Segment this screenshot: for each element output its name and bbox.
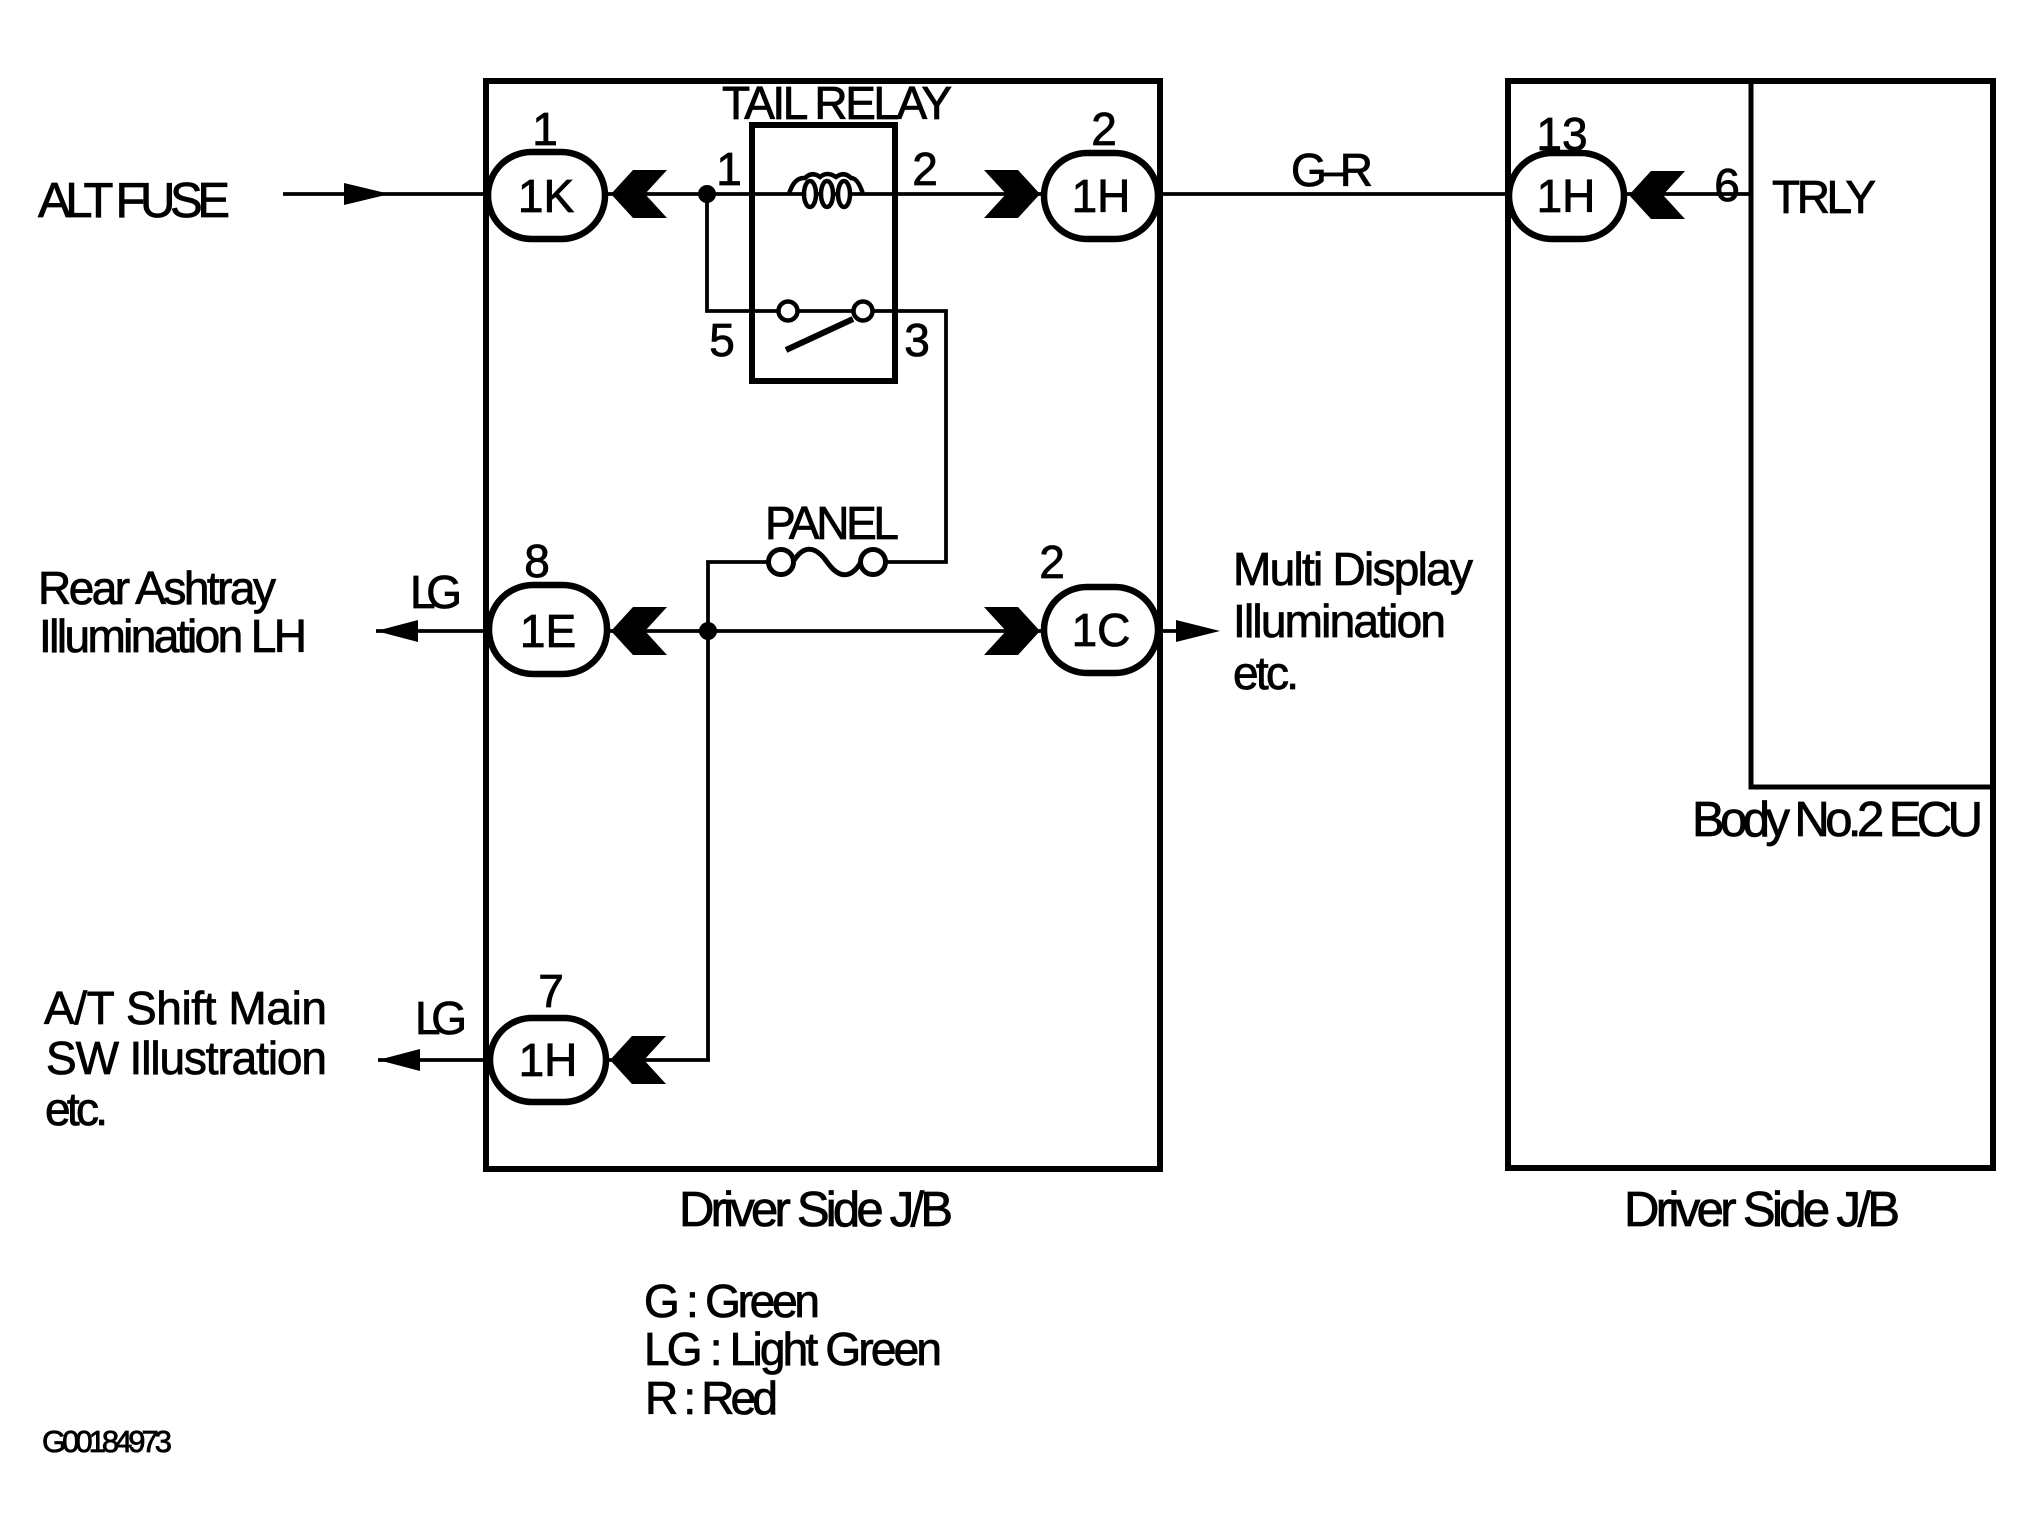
svg-text:etc.: etc. <box>45 1083 108 1135</box>
svg-text:etc.: etc. <box>1233 647 1299 699</box>
svg-text:G00184973: G00184973 <box>42 1424 172 1459</box>
svg-text:2: 2 <box>912 143 938 195</box>
svg-text:PANEL: PANEL <box>765 497 899 549</box>
svg-text:Rear Ashtray: Rear Ashtray <box>38 562 276 614</box>
chevron connector arrow at 1H pin13 (points left) <box>1629 171 1685 219</box>
box: Body No.2 ECU internal partition <box>1751 81 1993 787</box>
chevron connector arrow at 1C (points right) <box>984 607 1040 655</box>
svg-text:1E: 1E <box>520 605 576 657</box>
svg-text:Illumination LH: Illumination LH <box>39 610 307 662</box>
wire: relay pin 3 over to right and down to PANEL fuse <box>788 311 946 562</box>
svg-text:Driver Side J/B: Driver Side J/B <box>679 1183 953 1237</box>
svg-text:LG : Light Green: LG : Light Green <box>644 1323 942 1375</box>
svg-text:1H: 1H <box>1537 170 1596 222</box>
chevron connector arrow at 1H pin7 (points left) <box>610 1036 666 1084</box>
wire: ALT FUSE feed to relay coil row (main top wire) <box>283 192 1751 196</box>
svg-text:G–R: G–R <box>1291 144 1373 196</box>
relay switch contacts <box>779 302 798 321</box>
svg-text:3: 3 <box>904 314 930 366</box>
connector 1H (pin 2) <box>1044 153 1158 239</box>
arrowhead: to A/T Shift (points left) <box>378 1049 420 1071</box>
junction node B (middle) <box>699 622 717 640</box>
svg-text:7: 7 <box>538 965 564 1017</box>
svg-text:8: 8 <box>524 535 550 587</box>
relay switch blade <box>786 319 853 350</box>
arrowhead: ALT FUSE feed (points right) <box>344 183 390 205</box>
svg-text:1K: 1K <box>518 170 575 222</box>
connector 1H (pin 13) <box>1509 153 1624 239</box>
svg-text:Illumination: Illumination <box>1233 595 1446 647</box>
svg-text:SW Illustration: SW Illustration <box>46 1032 327 1084</box>
svg-text:2: 2 <box>1091 103 1117 155</box>
relay coil <box>789 174 863 194</box>
svg-text:1: 1 <box>532 103 558 155</box>
connector 1K (pin 1) <box>488 152 605 239</box>
chevron connector arrow at 1K (points left) <box>611 170 667 218</box>
svg-text:6: 6 <box>1714 159 1740 211</box>
chevron connector arrow at 1E (points left) <box>611 607 667 655</box>
svg-text:5: 5 <box>709 314 735 366</box>
svg-text:Body No.2 ECU: Body No.2 ECU <box>1692 793 1983 847</box>
svg-text:G : Green: G : Green <box>644 1275 820 1327</box>
wire: branch from node A down to relay switch pin 5 <box>707 194 779 311</box>
chevron connector arrow at 1H pin2 (points right) <box>984 170 1040 218</box>
relay TAIL RELAY box <box>752 125 895 381</box>
connector 1C (pin 2) <box>1044 587 1158 673</box>
junction node A (top) <box>698 185 716 203</box>
wire: PANEL fuse left lead and long vertical riser down to row 3 <box>708 562 768 1060</box>
svg-text:LG: LG <box>410 566 462 618</box>
svg-text:LG: LG <box>415 992 467 1044</box>
svg-text:Multi Display: Multi Display <box>1233 543 1473 595</box>
svg-text:1H: 1H <box>1072 170 1131 222</box>
box: Driver Side J/B (right) <box>1508 81 1993 1168</box>
svg-text:ALT FUSE: ALT FUSE <box>38 174 230 228</box>
connector 1E (pin 8) <box>489 585 607 674</box>
wire: 1E to 1C row (middle wire) <box>376 629 1180 633</box>
svg-text:1C: 1C <box>1072 604 1131 656</box>
arrowhead: to Rear Ashtray (points left) <box>376 620 418 642</box>
svg-text:1: 1 <box>716 143 742 195</box>
svg-text:1H: 1H <box>519 1034 578 1086</box>
wire: A/T shift row from arrow to vertical riser <box>378 1058 710 1062</box>
svg-text:TRLY: TRLY <box>1772 171 1876 223</box>
svg-text:TAIL RELAY: TAIL RELAY <box>722 77 952 129</box>
svg-text:13: 13 <box>1536 108 1587 160</box>
connector 1H (pin 7) <box>490 1018 606 1102</box>
svg-text:A/T Shift Main: A/T Shift Main <box>44 982 327 1034</box>
PANEL fuse <box>769 550 794 575</box>
arrowhead: to Multi Display (points right) <box>1176 620 1220 642</box>
box: Driver Side J/B (left) <box>486 81 1160 1169</box>
svg-text:2: 2 <box>1039 536 1065 588</box>
svg-text:Driver Side J/B: Driver Side J/B <box>1624 1183 1900 1237</box>
svg-text:R : Red: R : Red <box>645 1372 778 1424</box>
